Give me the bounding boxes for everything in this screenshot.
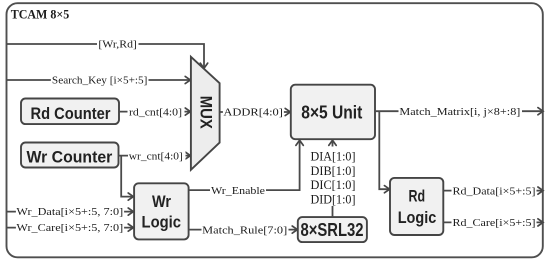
Rd Counter block	[21, 99, 119, 125]
svg-text:Wr: Wr	[152, 192, 171, 211]
wire ADDR[4:0] from MUX to 8x5 Unit	[220, 106, 291, 119]
svg-text:wr_cnt[4:0]: wr_cnt[4:0]	[129, 150, 183, 162]
wire DI bus from 8xSRL32 up into 8x5 Unit	[329, 140, 336, 217]
svg-text:Match_Matrix[i, j×8+:8]: Match_Matrix[i, j×8+:8]	[399, 106, 520, 118]
8xSRL32 block	[298, 217, 367, 242]
svg-text:DIA[1:0]: DIA[1:0]	[311, 149, 356, 163]
svg-text:[Wr,Rd]: [Wr,Rd]	[98, 39, 137, 51]
svg-text:Wr Counter: Wr Counter	[27, 147, 113, 166]
svg-text:8×5 Unit: 8×5 Unit	[301, 103, 362, 123]
svg-text:Logic: Logic	[142, 212, 182, 231]
wire Wr_Enable from Wr Logic up into 8x5 Unit	[189, 140, 304, 197]
svg-text:Wr_Data[i×5+:5, 7:0]: Wr_Data[i×5+:5, 7:0]	[16, 206, 123, 218]
wire wr_cnt[4:0] into MUX	[119, 150, 191, 163]
svg-text:Match_Rule[7:0]: Match_Rule[7:0]	[202, 224, 287, 236]
svg-text:Wr_Care[i×5+:5, 7:0]: Wr_Care[i×5+:5, 7:0]	[16, 222, 123, 234]
svg-text:DIC[1:0]: DIC[1:0]	[311, 178, 356, 192]
svg-text:ADDR[4:0]: ADDR[4:0]	[223, 107, 283, 119]
wire rd_cnt[4:0] into MUX	[119, 106, 190, 119]
8x5 Unit block	[291, 85, 375, 140]
svg-text:8×SRL32: 8×SRL32	[301, 220, 364, 240]
mux MUX	[191, 57, 220, 170]
svg-text:Logic: Logic	[398, 208, 437, 227]
svg-text:DID[1:0]: DID[1:0]	[311, 193, 356, 207]
svg-text:Rd_Care[i×5+:5]: Rd_Care[i×5+:5]	[453, 217, 536, 229]
wire Wr_Data into Wr Logic	[7, 206, 133, 219]
svg-text:Rd: Rd	[409, 187, 426, 206]
svg-text:Rd Counter: Rd Counter	[31, 104, 111, 123]
svg-text:rd_cnt[4:0]: rd_cnt[4:0]	[129, 106, 182, 118]
Rd Logic block	[390, 178, 443, 235]
wire Match_Matrix output	[375, 105, 543, 118]
Wr Logic block	[134, 183, 189, 239]
wire Rd_Data output	[443, 185, 543, 198]
Wr Counter block	[21, 143, 119, 168]
wire Rd_Care output	[443, 216, 543, 229]
svg-text:Rd_Data[i×5+:5]: Rd_Data[i×5+:5]	[453, 185, 536, 197]
wire Match_Matrix branch down into Rd Logic	[379, 111, 389, 193]
wire [Wr,Rd] into MUX select	[7, 38, 208, 68]
wire Search_Key into MUX	[7, 74, 190, 87]
svg-text:MUX: MUX	[196, 96, 215, 130]
wire Match_Rule[7:0] into 8xSRL32	[189, 224, 298, 237]
svg-text:DIB[1:0]: DIB[1:0]	[311, 164, 356, 178]
svg-text:Search_Key [i×5+:5]: Search_Key [i×5+:5]	[52, 75, 148, 87]
svg-text:TCAM 8×5: TCAM 8×5	[11, 7, 69, 21]
svg-text:Wr_Enable: Wr_Enable	[211, 185, 265, 197]
wire wr_cnt branch down into Wr Logic	[121, 156, 133, 201]
wire Wr_Care into Wr Logic	[7, 222, 133, 235]
node DIA/DIB/DIC/DID labels	[309, 147, 359, 207]
